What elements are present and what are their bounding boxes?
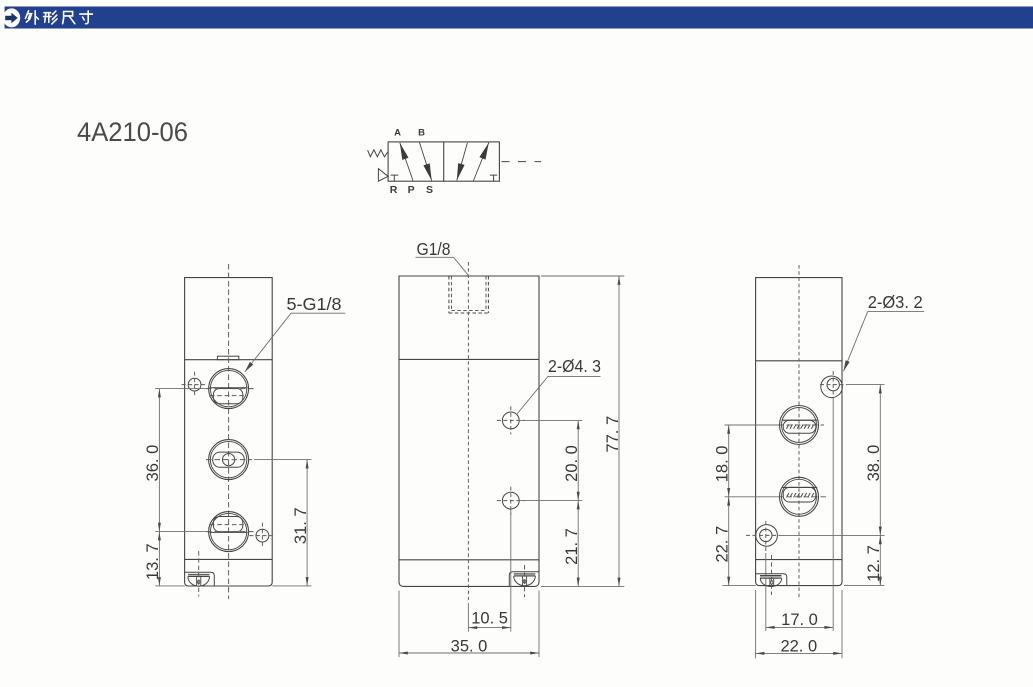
svg-text:B: B <box>418 127 425 138</box>
svg-text:12. 7: 12. 7 <box>865 545 883 582</box>
svg-text:20. 0: 20. 0 <box>563 445 581 482</box>
svg-text:P: P <box>408 184 415 196</box>
svg-text:35. 0: 35. 0 <box>451 637 488 655</box>
svg-text:2-Ø4. 3: 2-Ø4. 3 <box>548 356 601 376</box>
svg-text:22. 7: 22. 7 <box>714 526 732 563</box>
svg-text:R: R <box>390 184 398 196</box>
svg-text:77. 7: 77. 7 <box>604 416 622 453</box>
svg-text:A: A <box>394 127 401 138</box>
svg-text:18. 0: 18. 0 <box>714 446 732 483</box>
svg-text:38. 0: 38. 0 <box>865 445 883 482</box>
svg-text:4A210-06: 4A210-06 <box>77 117 188 147</box>
svg-text:36. 0: 36. 0 <box>144 445 162 482</box>
svg-text:S: S <box>426 184 433 196</box>
svg-text:31. 7: 31. 7 <box>292 507 310 544</box>
svg-text:G1/8: G1/8 <box>417 239 451 259</box>
svg-text:2-Ø3. 2: 2-Ø3. 2 <box>868 292 923 312</box>
svg-text:10. 5: 10. 5 <box>471 610 508 628</box>
svg-text:13. 7: 13. 7 <box>144 543 162 580</box>
svg-text:22. 0: 22. 0 <box>780 637 817 655</box>
svg-text:21. 7: 21. 7 <box>563 528 581 565</box>
svg-text:17. 0: 17. 0 <box>781 611 818 629</box>
svg-text:5-G1/8: 5-G1/8 <box>287 294 342 314</box>
